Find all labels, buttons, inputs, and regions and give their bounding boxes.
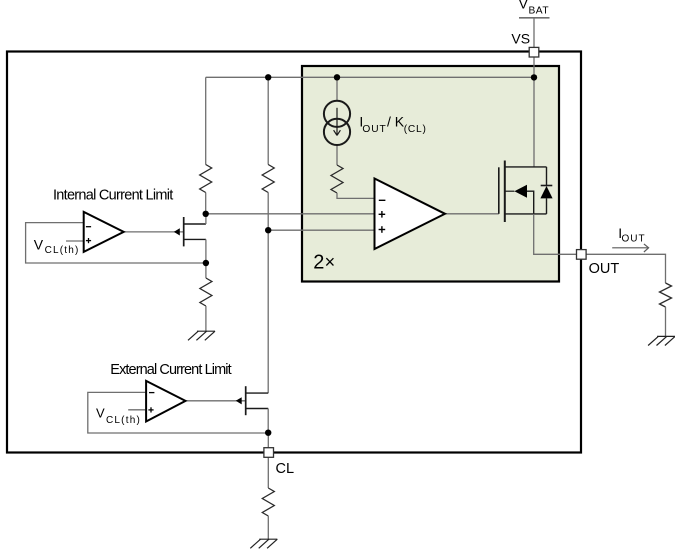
svg-text:VS: VS [511, 30, 530, 46]
junction node on rail second vertical [265, 74, 271, 80]
op-amp U1 feedback loop wire [26, 223, 206, 263]
resistor R1 [200, 165, 212, 193]
pin OUT [577, 250, 587, 260]
wire current source to resistor [336, 145, 338, 166]
op-amp U3 output wire (to gate of M1) [445, 213, 499, 215]
wire OUT net to load resistor [586, 254, 666, 283]
svg-text:CL(th): CL(th) [45, 245, 80, 256]
resistor R2 [262, 165, 274, 193]
svg-text:/ K: / K [387, 114, 405, 130]
wire second vertical lower [267, 193, 269, 394]
wire left vertical lower [205, 193, 207, 214]
resistor R4 [200, 278, 212, 306]
op-amp U1 output wire [124, 231, 184, 233]
junction node on rail at current source [334, 74, 340, 80]
op-amp U2 feedback loop wire [88, 392, 268, 433]
wire R6 to ground [267, 516, 269, 539]
resistor R3 [331, 165, 343, 193]
op-amp U2 output wire [185, 400, 246, 402]
wire VCL(th) plus lead U1 [66, 240, 84, 242]
wire VCL(th) plus lead U2 [128, 409, 145, 411]
transistor Q1 [183, 217, 185, 246]
wire R5 to ground [665, 307, 667, 336]
junction node Q1 drain [203, 211, 209, 217]
junction node on rail at VS [531, 74, 537, 80]
svg-text:(CL): (CL) [404, 124, 427, 135]
wire top rail y=77 [206, 76, 534, 78]
svg-text:CL(th): CL(th) [106, 415, 141, 426]
pin VS [529, 47, 539, 57]
op-amp U3 (2x stage) [375, 179, 446, 250]
junction node second sense [265, 227, 271, 233]
svg-text:V: V [34, 236, 44, 252]
wire second vertical upper [267, 77, 269, 164]
svg-text:V: V [519, 0, 529, 11]
svg-text:OUT: OUT [362, 124, 386, 135]
svg-text:OUT: OUT [622, 234, 646, 245]
current source I1 [324, 101, 350, 145]
wire sense line y=213.8 to op-amp U3 input [206, 213, 375, 215]
wire current source tap [336, 77, 338, 101]
svg-text:External Current Limit: External Current Limit [110, 362, 231, 378]
junction node CL [265, 430, 271, 436]
resistor R6 [262, 488, 274, 516]
arrow IOUT [612, 244, 648, 252]
svg-text:OUT: OUT [589, 261, 620, 277]
svg-text:V: V [96, 406, 105, 421]
wire CL junction down through CL pin to R6 [267, 433, 269, 488]
wire R3 to U3 minus input [337, 193, 375, 198]
transistor Q2 [245, 386, 247, 415]
svg-text:Internal Current Limit: Internal Current Limit [53, 187, 173, 203]
ground GND1 [188, 331, 215, 340]
wire VS vertical from VBAT to MOSFET drain [533, 18, 535, 167]
pin CL [264, 448, 274, 458]
outer device box [7, 52, 581, 453]
junction node Q1 source [203, 260, 209, 266]
svg-text:×: × [325, 252, 336, 272]
svg-text:CL: CL [276, 461, 295, 477]
op-amp U2 (External Current Limit) [146, 381, 185, 422]
wire sense line y=230.2 to op-amp U3 input [268, 229, 374, 231]
op-amp U1 (Internal Current Limit) [84, 212, 124, 252]
resistor R5 [660, 283, 672, 307]
ground GND3 [648, 336, 675, 345]
wire left vertical upper [205, 77, 207, 164]
body diode D1 [540, 167, 552, 214]
MOSFET M1 [499, 161, 547, 223]
ground GND2 [250, 539, 277, 548]
svg-text:2: 2 [313, 251, 324, 273]
wire R4 to ground [205, 306, 207, 331]
svg-text:BAT: BAT [529, 5, 550, 16]
2x output stage box (green) [302, 66, 559, 282]
wire Q1 source to R4 [205, 263, 207, 278]
wire VBAT bar [519, 17, 550, 19]
wire M1 source to OUT pin [534, 214, 576, 254]
